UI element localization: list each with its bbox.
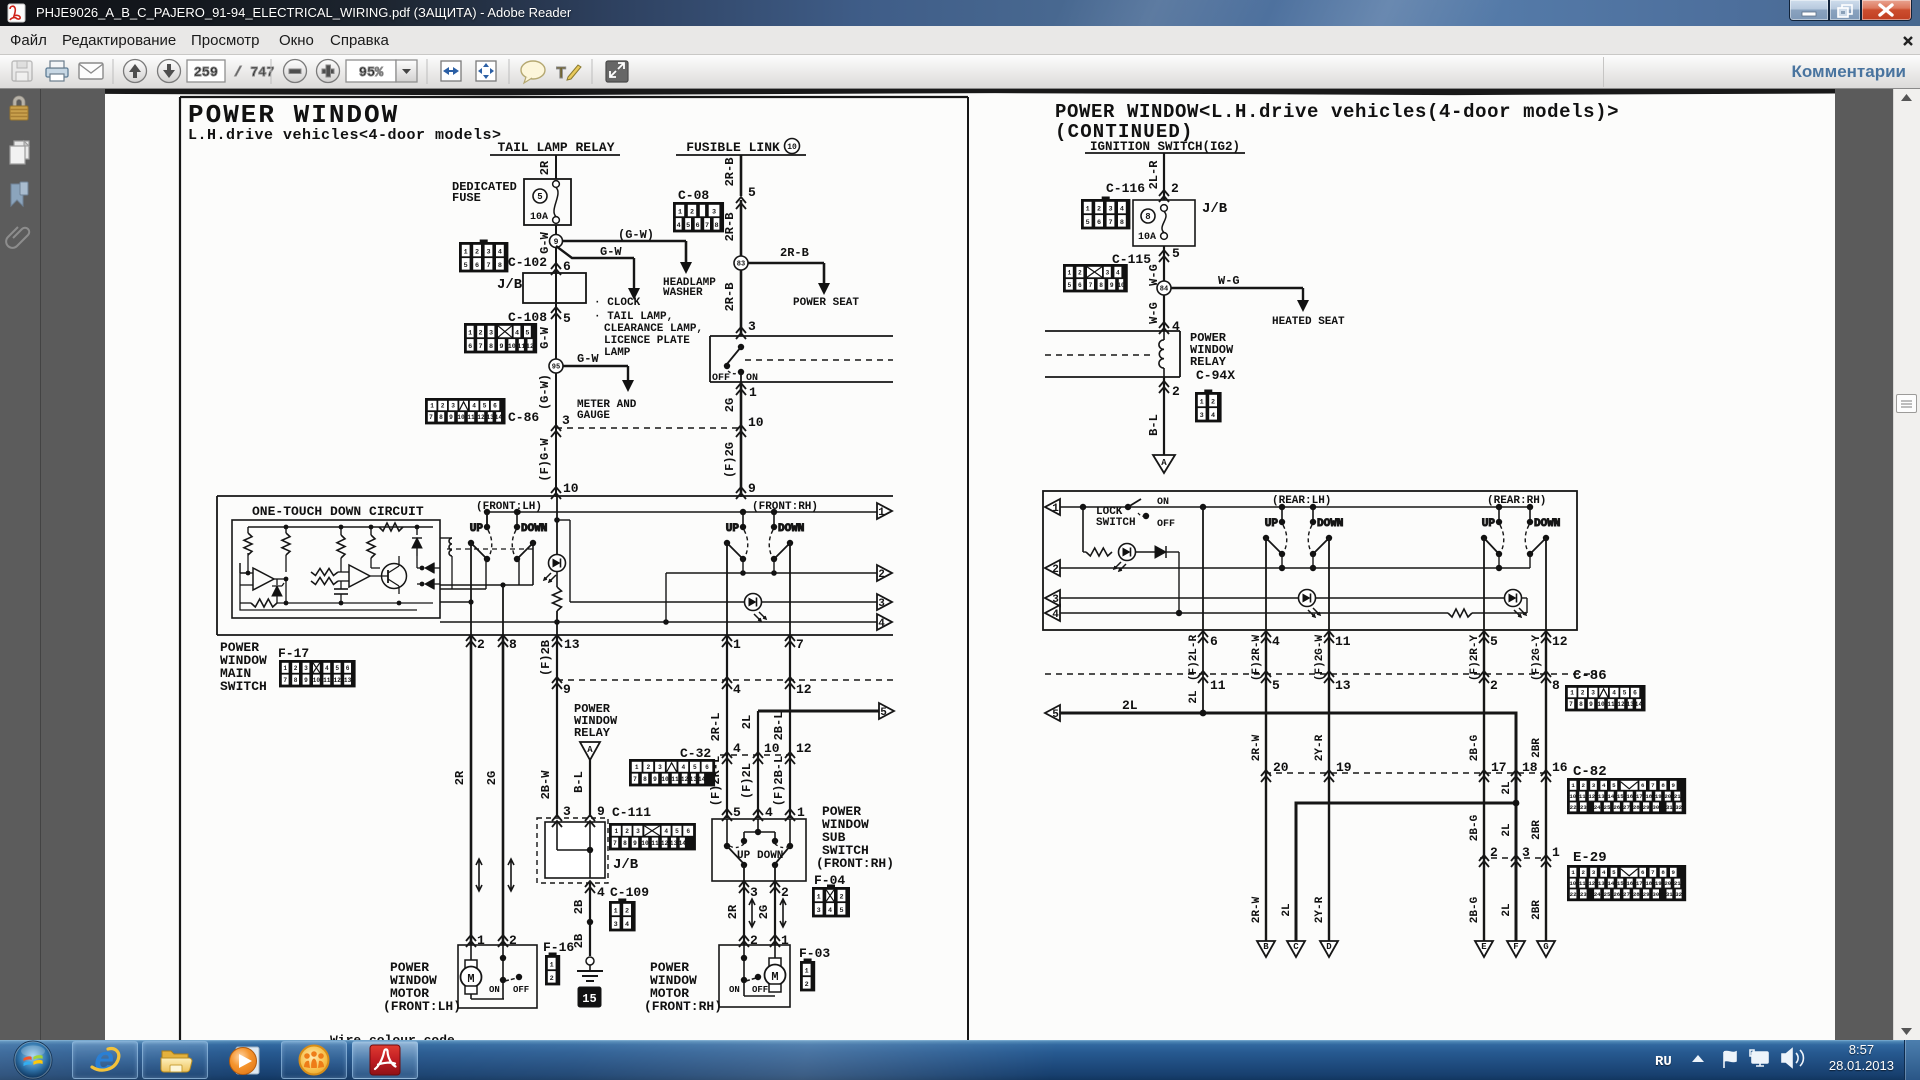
- svg-text:8: 8: [1579, 701, 1583, 708]
- svg-text:15: 15: [582, 992, 596, 1006]
- svg-text:11: 11: [467, 414, 475, 421]
- svg-text:7: 7: [1108, 219, 1112, 227]
- fuse F8 10A: [1161, 205, 1168, 240]
- svg-text:2L: 2L: [1501, 823, 1513, 837]
- svg-text:2: 2: [1490, 845, 1498, 860]
- connector triangle 1: [877, 503, 892, 519]
- connector triangle 3: [877, 594, 892, 610]
- text edit: [556, 65, 581, 84]
- svg-text:2R-W: 2R-W: [1251, 734, 1263, 761]
- svg-text:28: 28: [1633, 804, 1640, 811]
- svg-text:20: 20: [1664, 880, 1671, 887]
- svg-text:E: E: [1481, 942, 1487, 952]
- svg-text:17: 17: [1636, 793, 1643, 800]
- svg-text:13: 13: [1626, 701, 1634, 708]
- svg-text:3: 3: [1105, 270, 1109, 277]
- node IGNITION SWITCH (IG2): [1085, 140, 1245, 154]
- svg-text:2L: 2L: [1188, 690, 1200, 704]
- svg-text:5: 5: [1067, 282, 1071, 289]
- svg-text:10: 10: [748, 415, 764, 430]
- wire 2B to ground: [572, 883, 593, 956]
- svg-text:10: 10: [661, 776, 669, 783]
- svg-text:3: 3: [1052, 594, 1059, 606]
- resistor R4: [367, 527, 375, 558]
- front LH switch output wires: [440, 542, 533, 635]
- svg-text:6: 6: [475, 262, 479, 270]
- lock switch: [1096, 497, 1175, 530]
- svg-text:5: 5: [1172, 246, 1180, 261]
- svg-text:12: 12: [1552, 634, 1568, 649]
- svg-text:9: 9: [1672, 869, 1676, 876]
- svg-text:9: 9: [597, 804, 605, 819]
- wire 2R-B to junction 83: [723, 200, 741, 336]
- svg-text:5: 5: [733, 805, 741, 820]
- power window motor front LH box: [458, 945, 537, 1008]
- diode D1: [412, 527, 422, 556]
- pin 10 at C-86 right: [736, 415, 764, 437]
- svg-text:9: 9: [554, 238, 559, 247]
- svg-text:C-86: C-86: [508, 410, 539, 425]
- page num box: [187, 60, 225, 82]
- svg-text:14: 14: [495, 414, 503, 421]
- svg-text:3: 3: [563, 804, 571, 819]
- svg-text:2R: 2R: [726, 904, 740, 919]
- svg-text:30: 30: [1652, 804, 1659, 811]
- connector C-82: [1568, 764, 1685, 813]
- output diodes D3 D4: [417, 556, 440, 589]
- junction block J/B (C-102/C-108): [497, 273, 586, 303]
- fit page: [476, 61, 496, 81]
- one-touch bottom rail: [240, 553, 433, 605]
- svg-text:POWER SEAT: POWER SEAT: [793, 297, 859, 309]
- svg-text:19: 19: [1655, 880, 1662, 887]
- svg-text:1: 1: [468, 330, 472, 338]
- svg-text:8: 8: [489, 343, 493, 351]
- svg-text:2G: 2G: [485, 771, 499, 785]
- resistor R6: [311, 569, 338, 576]
- svg-text:2: 2: [294, 665, 298, 672]
- wire G-W below J/B: [538, 303, 556, 366]
- comment bubble: [521, 61, 545, 83]
- node FUSIBLE LINK 10: [676, 139, 806, 156]
- svg-text:· TAIL LAMP,: · TAIL LAMP,: [594, 311, 673, 323]
- svg-text:M: M: [771, 970, 778, 984]
- svg-text:DOWN: DOWN: [1317, 518, 1343, 530]
- svg-text:7: 7: [1569, 701, 1573, 708]
- svg-text:8: 8: [1661, 869, 1665, 876]
- svg-text:(G-W): (G-W): [618, 228, 654, 242]
- svg-text:12: 12: [1588, 880, 1595, 887]
- svg-text:1: 1: [797, 805, 805, 820]
- svg-text:J/B: J/B: [1202, 201, 1228, 217]
- svg-text:11: 11: [651, 840, 659, 847]
- svg-text:UP: UP: [470, 523, 484, 535]
- wire 2R from tail lamp relay: [538, 155, 556, 179]
- svg-text:2R: 2R: [538, 160, 552, 175]
- svg-text:5: 5: [537, 192, 542, 202]
- svg-text:2Y-R: 2Y-R: [1314, 896, 1326, 923]
- wire4 rail: [440, 619, 877, 625]
- connector E-29: [1568, 850, 1685, 900]
- svg-text:DOWN: DOWN: [778, 523, 804, 535]
- rear LH switch (UP/DOWN): [1263, 495, 1344, 557]
- pin 5 out of J/B / connector C-108 label: [508, 307, 571, 326]
- power window motor front RH box: [719, 945, 790, 1007]
- connector F-04: [813, 873, 849, 916]
- heated seat load: [1272, 316, 1345, 328]
- svg-text:16: 16: [1626, 793, 1633, 800]
- svg-text:2G: 2G: [757, 905, 771, 919]
- svg-text:4: 4: [1272, 634, 1280, 649]
- mechanical link dashed: [447, 548, 533, 550]
- wire 2G to RH motor: [757, 881, 775, 945]
- svg-text:11: 11: [1335, 634, 1351, 649]
- right page subtitle (CONTINUED): [1055, 121, 1194, 143]
- junction node 83: [734, 256, 748, 270]
- svg-text:2: 2: [509, 933, 517, 948]
- power window relay label: [574, 702, 618, 740]
- svg-text:16: 16: [1626, 880, 1633, 887]
- svg-text:31: 31: [1666, 891, 1673, 898]
- svg-text:7: 7: [633, 776, 637, 783]
- wire (F)2R-L: [709, 635, 727, 818]
- resistor R9 below LED: [553, 572, 562, 635]
- svg-text:6: 6: [1641, 869, 1645, 876]
- svg-text:A: A: [587, 745, 593, 755]
- connector C-116: [1082, 197, 1129, 229]
- svg-text:4: 4: [472, 403, 476, 410]
- svg-text:14: 14: [1607, 793, 1614, 800]
- svg-text:2: 2: [839, 894, 843, 902]
- wire3 LED (front RH illumination): [745, 594, 878, 622]
- svg-text:10: 10: [1569, 793, 1576, 800]
- svg-text:3: 3: [1592, 782, 1596, 789]
- svg-text:C-109: C-109: [610, 885, 649, 900]
- pin 4 out of J/B: [585, 881, 605, 900]
- svg-text:11: 11: [1210, 678, 1226, 693]
- wire B-L to ground A: [1147, 414, 1161, 436]
- svg-text:W-G: W-G: [1218, 274, 1240, 288]
- scan artifact band: [105, 89, 1835, 95]
- svg-text:5: 5: [464, 262, 468, 270]
- svg-text:18: 18: [1645, 793, 1652, 800]
- svg-text:C-108: C-108: [508, 310, 547, 325]
- svg-text:2L: 2L: [1501, 903, 1513, 917]
- svg-text:2B-L: 2B-L: [772, 712, 786, 741]
- svg-text:8: 8: [294, 677, 298, 684]
- svg-text:22: 22: [1570, 891, 1577, 898]
- svg-text:T: T: [556, 65, 566, 84]
- svg-text:4: 4: [498, 249, 502, 257]
- pin 5 crossing: [736, 185, 756, 209]
- svg-text:B: B: [1263, 942, 1269, 952]
- loads clock, tail lamp, clearance lamp: [594, 297, 703, 359]
- svg-text:13: 13: [344, 677, 352, 684]
- svg-text:5: 5: [675, 828, 679, 835]
- svg-text:9: 9: [499, 343, 503, 351]
- IE: [92, 1043, 119, 1080]
- wire 2R to RH motor: [726, 881, 744, 945]
- wire (F)2R-W: [1251, 630, 1266, 941]
- svg-text:2: 2: [1581, 690, 1585, 697]
- svg-text:1: 1: [1086, 206, 1090, 214]
- ground triangle A: [1153, 455, 1175, 473]
- svg-text:25: 25: [1604, 891, 1611, 898]
- svg-text:SWITCH: SWITCH: [1096, 517, 1136, 529]
- wire B-L from relay triangle: [572, 760, 590, 817]
- svg-text:2: 2: [1097, 206, 1101, 214]
- svg-text:9: 9: [563, 682, 571, 697]
- svg-text:11: 11: [323, 677, 331, 684]
- svg-text:1: 1: [283, 665, 287, 672]
- svg-text:C-111: C-111: [612, 805, 651, 820]
- pins into sub switch: [722, 805, 805, 821]
- svg-text:2: 2: [1582, 869, 1586, 876]
- relay coil K1: [440, 538, 452, 589]
- zoom out: [284, 60, 307, 83]
- resistor R2: [282, 527, 290, 555]
- lotus notes: [300, 1046, 329, 1075]
- svg-text:ONE-TOUCH DOWN CIRCUIT: ONE-TOUCH DOWN CIRCUIT: [252, 504, 424, 519]
- pin 4 at C-32: [722, 741, 741, 764]
- svg-text:11: 11: [1579, 880, 1586, 887]
- svg-text:2BR: 2BR: [1531, 820, 1543, 840]
- motion arrows RH: [749, 899, 786, 927]
- wire 2L cross link: [1296, 800, 1519, 941]
- svg-text:2: 2: [1052, 564, 1059, 576]
- svg-text:10A: 10A: [530, 212, 548, 223]
- svg-text:2: 2: [477, 637, 485, 652]
- svg-text:3: 3: [614, 921, 618, 929]
- svg-text:7: 7: [705, 222, 709, 230]
- svg-text:18: 18: [1645, 880, 1652, 887]
- meter and gauge load: [577, 399, 637, 422]
- wire colour code caption: [330, 1033, 455, 1048]
- svg-text:UP: UP: [1265, 518, 1279, 530]
- svg-text:10: 10: [1117, 282, 1125, 289]
- wire W-G to relay: [1147, 295, 1164, 331]
- svg-text:1: 1: [635, 764, 639, 771]
- svg-text:14: 14: [1635, 701, 1643, 708]
- svg-text:2L: 2L: [740, 715, 754, 729]
- subtitle L.H.drive vehicles: [188, 127, 502, 144]
- svg-text:13: 13: [1335, 678, 1351, 693]
- wire (F)2G into main switch: [723, 442, 737, 478]
- pin 5 below J/B: [1112, 246, 1180, 288]
- connector triangle 4: [877, 614, 892, 630]
- main switch box bottom pins: [466, 635, 804, 652]
- svg-text:10: 10: [641, 840, 649, 847]
- svg-text:2: 2: [475, 249, 479, 257]
- svg-text:ON: ON: [746, 373, 758, 384]
- svg-text:4: 4: [1211, 412, 1215, 420]
- svg-text:3: 3: [562, 413, 570, 428]
- connector triangle 4 left: [1045, 605, 1060, 621]
- svg-text:3: 3: [878, 598, 885, 610]
- diode D5: [1136, 546, 1179, 558]
- svg-text:10: 10: [1597, 701, 1605, 708]
- junction block J/B (C-111): [537, 818, 639, 883]
- wire (G-W) branch to headlamp washer: [562, 228, 692, 274]
- svg-text:12: 12: [796, 741, 812, 756]
- svg-text:4: 4: [1612, 690, 1616, 697]
- full screen: [606, 61, 628, 82]
- svg-text:12: 12: [661, 840, 669, 847]
- svg-text:3: 3: [1200, 412, 1204, 420]
- svg-text:2: 2: [479, 330, 483, 338]
- svg-text:12: 12: [796, 682, 812, 697]
- svg-text:J/B: J/B: [497, 277, 523, 293]
- wire labels below C-82: [1469, 814, 1543, 841]
- svg-text:POWER WINDOW<L.H.drive vehicle: POWER WINDOW<L.H.drive vehicles(4-door m…: [1055, 101, 1619, 123]
- svg-text:8: 8: [1120, 219, 1124, 227]
- svg-text:27: 27: [1623, 804, 1630, 811]
- wire 4 rail with resistor: [1060, 609, 1527, 617]
- svg-text:(FRONT:RH): (FRONT:RH): [752, 501, 818, 513]
- capacitor C1: [334, 581, 348, 603]
- svg-text:2B-G: 2B-G: [1469, 896, 1481, 923]
- svg-text:8: 8: [498, 262, 502, 270]
- svg-text:12: 12: [333, 677, 341, 684]
- svg-text:5: 5: [880, 707, 887, 719]
- label power window sub switch: [816, 804, 894, 871]
- svg-text:25: 25: [1604, 804, 1611, 811]
- svg-text:12: 12: [526, 343, 534, 351]
- connector triangle 3 left: [1045, 590, 1060, 606]
- harness triangle E: [1475, 941, 1493, 957]
- LED indicator on x557: [544, 496, 566, 582]
- op-amp U1: [240, 568, 286, 590]
- svg-text:G-W: G-W: [577, 352, 599, 366]
- svg-text:95: 95: [552, 364, 560, 372]
- svg-text:F-16: F-16: [543, 940, 574, 955]
- svg-text:3: 3: [750, 885, 758, 900]
- svg-text:10: 10: [764, 741, 780, 756]
- connector C-08: [674, 188, 723, 231]
- svg-text:3: 3: [489, 330, 493, 338]
- power window relay box (right page part): [1045, 331, 1180, 377]
- svg-text:3: 3: [712, 209, 716, 217]
- svg-text:7: 7: [429, 414, 433, 421]
- adobe reader: [370, 1045, 400, 1075]
- svg-text:C-32: C-32: [680, 746, 711, 761]
- rear RH switch (UP/DOWN): [1481, 495, 1561, 557]
- svg-text:UP: UP: [737, 850, 751, 862]
- svg-text:4: 4: [677, 222, 681, 230]
- svg-text:17: 17: [1636, 880, 1643, 887]
- pin 3 at C-86: [551, 413, 570, 437]
- svg-text:5: 5: [1490, 634, 1498, 649]
- svg-text:12: 12: [1588, 793, 1595, 800]
- page up: [124, 60, 147, 83]
- fuse F5 10A: [553, 181, 560, 224]
- svg-text:8: 8: [509, 637, 517, 652]
- svg-text:2: 2: [690, 209, 694, 217]
- svg-text:5: 5: [335, 665, 339, 672]
- C-86 pins: [1198, 671, 1560, 693]
- wire W-G branch to heated seat: [1171, 274, 1309, 312]
- svg-text:23: 23: [1580, 804, 1587, 811]
- svg-text:2L: 2L: [1281, 903, 1293, 917]
- svg-text:9: 9: [1672, 782, 1676, 789]
- connector C-108: [465, 324, 536, 352]
- svg-text:2: 2: [625, 908, 629, 916]
- svg-text:5: 5: [525, 330, 529, 338]
- svg-text:6: 6: [1078, 282, 1082, 289]
- svg-text:17: 17: [1491, 760, 1507, 775]
- LED lock indicator: [1114, 544, 1136, 572]
- svg-text:9: 9: [653, 776, 657, 783]
- svg-text:10: 10: [508, 343, 516, 351]
- svg-text:4: 4: [681, 764, 685, 771]
- svg-text:7: 7: [479, 343, 483, 351]
- svg-text:5: 5: [839, 907, 843, 915]
- wire (F)2R-Y: [1469, 630, 1484, 941]
- headlamp washer load: [663, 277, 716, 299]
- svg-text:1: 1: [1052, 503, 1059, 515]
- connector C-94X: [1196, 390, 1221, 422]
- RH motor internal switch: [729, 945, 775, 996]
- svg-text:83: 83: [737, 261, 745, 269]
- svg-text:2: 2: [441, 403, 445, 410]
- svg-text:26: 26: [1613, 804, 1620, 811]
- pin 1 out of relay: [736, 383, 757, 400]
- svg-text:CLEARANCE LAMP,: CLEARANCE LAMP,: [604, 323, 703, 335]
- pin 4 into relay: [1159, 319, 1180, 334]
- svg-text:9: 9: [449, 414, 453, 421]
- harness triangle F: [1507, 941, 1525, 957]
- connector F-17: [278, 646, 355, 686]
- label power window motor front RH: [644, 960, 722, 1014]
- wire 1 rail to triangle 1: [487, 509, 877, 515]
- junction node 84: [1157, 281, 1171, 295]
- svg-text:12: 12: [477, 414, 485, 421]
- pin 12 at F-17: [785, 677, 812, 697]
- svg-text:95%: 95%: [359, 66, 384, 81]
- svg-text:DOWN: DOWN: [1534, 518, 1560, 530]
- svg-text:8: 8: [1552, 678, 1560, 693]
- svg-text:13: 13: [670, 840, 678, 847]
- connector F-03: [799, 946, 830, 990]
- svg-text:UP: UP: [1482, 518, 1496, 530]
- svg-text:2R: 2R: [453, 770, 467, 785]
- svg-text:2BR: 2BR: [1531, 900, 1543, 920]
- wire to C-102: [555, 247, 557, 273]
- svg-text:· CLOCK: · CLOCK: [594, 297, 641, 309]
- svg-text:11: 11: [517, 343, 525, 351]
- svg-text:2: 2: [805, 981, 809, 989]
- svg-text:21: 21: [1674, 880, 1681, 887]
- connector C-32: [630, 746, 714, 785]
- power seat load: [793, 297, 859, 309]
- wire (F)G-W into main switch: [538, 438, 552, 482]
- svg-text:SWITCH: SWITCH: [220, 679, 267, 694]
- svg-text:20: 20: [1664, 793, 1671, 800]
- svg-text:11: 11: [1579, 793, 1586, 800]
- svg-text:2R-B: 2R-B: [723, 283, 737, 312]
- svg-text:UP: UP: [726, 523, 740, 535]
- svg-text:5: 5: [483, 403, 487, 410]
- svg-text:3: 3: [304, 665, 308, 672]
- front LH window switch (UP/DOWN): [468, 501, 548, 562]
- svg-text:8: 8: [623, 840, 627, 847]
- svg-text:DOWN: DOWN: [521, 523, 547, 535]
- svg-text:J/B: J/B: [613, 857, 639, 873]
- svg-text:8: 8: [439, 414, 443, 421]
- svg-text:6: 6: [1210, 634, 1218, 649]
- svg-text:10: 10: [787, 143, 797, 152]
- svg-text:30: 30: [1652, 891, 1659, 898]
